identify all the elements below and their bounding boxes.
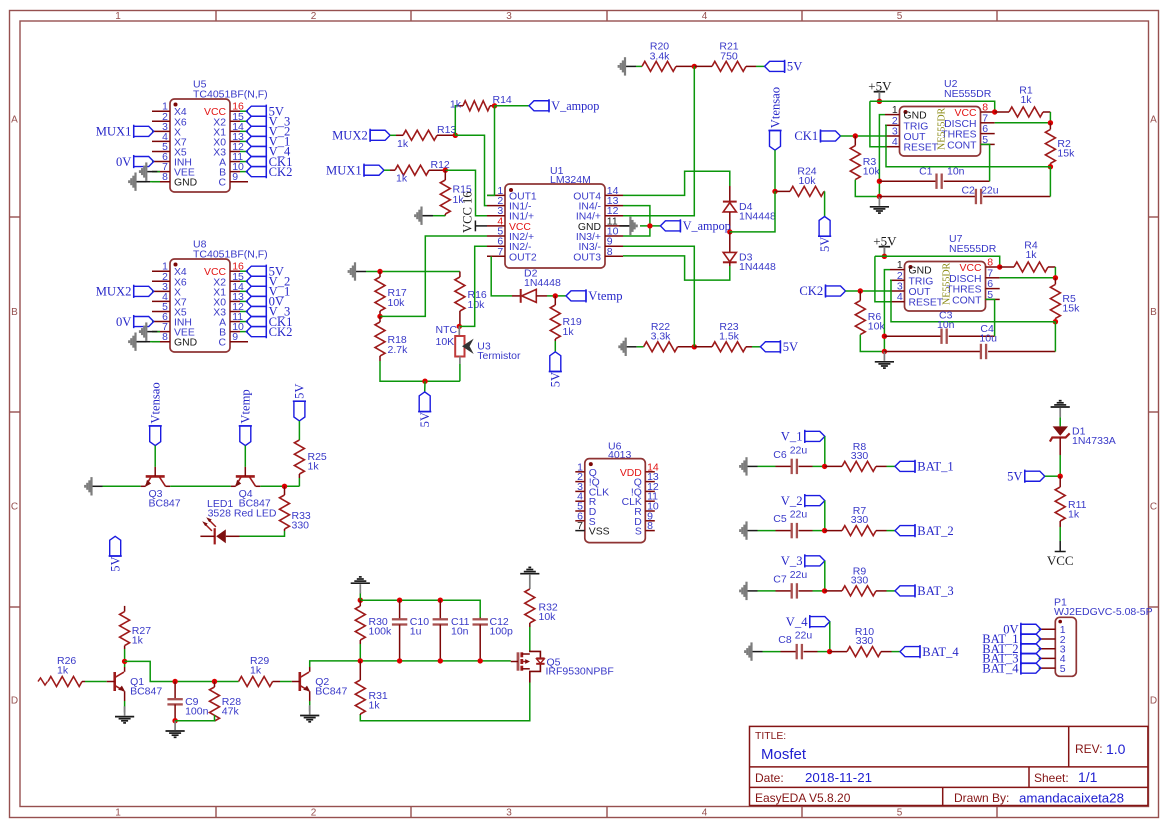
wire D3 to U1 pin8 OUT3 (623, 256, 730, 280)
junction R2 bottom (1048, 164, 1053, 169)
svg-text:VCC: VCC (960, 263, 982, 274)
net flag 5V at R23 (760, 340, 798, 354)
capacitor C7 22u (773, 569, 812, 599)
junction R12-R15 (443, 168, 448, 173)
wire R9 to BAT_3 (887, 590, 896, 592)
svg-text:Date:: Date: (755, 771, 784, 785)
net flag Vtensao column (768, 87, 782, 150)
ground at R17 top (349, 262, 366, 280)
ground symbol at U2 (870, 197, 889, 214)
svg-text:3: 3 (506, 11, 512, 22)
resistor R23 1.5k (694, 321, 752, 352)
junction V_4 (827, 649, 832, 654)
wire R3 to ground rail (855, 180, 879, 197)
resistor R21 750 (694, 41, 756, 72)
IC U2 NE555DR (885, 78, 995, 156)
wire R31 to bottom rail to Q5 source (360, 683, 530, 721)
net flag 5V at U5 pin 16 (246, 104, 284, 118)
diode D3 1N4448 (723, 232, 776, 273)
svg-text:OUT2: OUT2 (509, 252, 537, 263)
wire Vtensao to Q3 base (154, 446, 156, 467)
resistor R27 1k (120, 606, 152, 649)
ground at U5 pin 7 VEE (140, 162, 160, 180)
wire CK2 to U7 pin3 OUT (846, 290, 891, 292)
svg-text:4: 4 (897, 291, 903, 303)
junction mid rail C12 (478, 658, 483, 663)
wire V_3 flag down (824, 561, 826, 591)
wire U2 pin2 TRIG to R2 bottom (885, 125, 1050, 166)
junction R28 top (212, 679, 217, 684)
svg-text:330: 330 (856, 635, 874, 647)
svg-text:1k: 1k (563, 326, 575, 338)
op-amp U1 LM324M (487, 165, 623, 268)
svg-text:BC847: BC847 (315, 686, 347, 698)
wire R13 junction to U1 pin2 (455, 135, 487, 205)
net flag V_2 at U8 pin 15 (246, 274, 290, 288)
net flag V_ampop top (529, 99, 599, 113)
wire R25 to row (298, 478, 300, 486)
wire R29 to Q2 base (280, 681, 292, 683)
wire U7 pin2 TRIG to R5 bottom (890, 280, 1055, 321)
svg-text:S: S (635, 527, 642, 538)
svg-text:Mosfet: Mosfet (761, 746, 807, 763)
svg-text:100n: 100n (185, 706, 209, 718)
ground at C6 (740, 457, 757, 475)
svg-text:1/1: 1/1 (1078, 769, 1098, 785)
svg-text:C: C (218, 178, 226, 189)
svg-text:C: C (1150, 502, 1157, 513)
junction C11 top (438, 598, 443, 603)
mosfet Q5 IRF9530NPBF (511, 651, 614, 683)
zener diode D1 1N4733A (1050, 426, 1116, 456)
svg-text:5: 5 (897, 11, 903, 22)
wire R6 to ground rail (860, 335, 884, 352)
svg-text:GND: GND (909, 266, 932, 277)
diode D4 1N4448 (723, 186, 776, 232)
resistor R7 330 (825, 505, 887, 536)
junction C9 bottom (172, 718, 177, 723)
capacitor C5 22u (773, 509, 812, 539)
wire R20 junction down to U1 pin12 (623, 66, 694, 215)
svg-text:750: 750 (720, 51, 738, 63)
svg-text:15k: 15k (1057, 147, 1075, 159)
ground at C9 (166, 721, 185, 738)
svg-text:Vtemp: Vtemp (588, 289, 622, 303)
svg-text:8: 8 (647, 520, 653, 532)
IC U7 NE555DR (890, 233, 1000, 311)
wire R21 to 5V flag (756, 65, 765, 67)
wire R27 to Q1 collector (124, 649, 126, 667)
wire 5V to R25 (298, 421, 300, 440)
wire R4 down to DISCH (1054, 267, 1056, 278)
svg-text:C7: C7 (773, 573, 787, 585)
power flag VCC below R11 (1047, 527, 1074, 568)
wire V_4 flag down (829, 622, 831, 652)
svg-text:OUT: OUT (904, 132, 927, 143)
wire D1 to 5V junction (1059, 455, 1061, 476)
net flag MUX1 mid (326, 163, 384, 177)
svg-text:OUT: OUT (909, 287, 932, 298)
net flag V_4 (786, 615, 830, 629)
junction V_2 (822, 528, 827, 533)
wire +5V rail to U7 pin8 (875, 256, 1000, 267)
svg-text:D: D (1150, 696, 1157, 707)
svg-text:330: 330 (292, 520, 310, 532)
svg-text:5V: 5V (293, 383, 307, 398)
net flag 0V at U8 pin 13 (246, 295, 284, 309)
wire Q3 collector to Q4 emitter (170, 485, 231, 487)
svg-text:5V: 5V (783, 340, 798, 354)
capacitor C10 1u (392, 600, 429, 661)
power flag +5V at U2 (868, 78, 892, 101)
capacitor C2 22u at U2 (879, 185, 1050, 205)
resistor R32 10k (525, 589, 558, 627)
svg-text:CK2: CK2 (799, 284, 823, 298)
ground at U5 pin 8 GND (129, 172, 160, 190)
wire R23 to 5V flag (752, 346, 760, 348)
wire U2 pin1 GND down (879, 115, 885, 197)
net flag 0V at U5 pin 6 (116, 155, 154, 169)
transistor Q3 BC847 (141, 467, 181, 509)
svg-text:BAT_1: BAT_1 (917, 460, 953, 474)
svg-text:BAT_4: BAT_4 (982, 661, 1019, 675)
resistor R6 10k at U7 (855, 291, 885, 335)
resistor R29 1k (239, 655, 280, 687)
net flag 5V below R19 (549, 352, 563, 388)
inverted ground above R32 (520, 567, 539, 589)
svg-text:CK2: CK2 (269, 325, 293, 339)
resistor R18 2.7k (375, 316, 408, 361)
svg-text:2: 2 (311, 808, 317, 819)
svg-text:C6: C6 (773, 449, 787, 461)
transistor Q4 BC847 (231, 467, 271, 509)
capacitor C11 10n (433, 600, 470, 661)
net flag 0V at U8 pin 6 (116, 315, 154, 329)
ground at C8 (745, 642, 762, 660)
wire V_2 flag down (824, 501, 826, 531)
svg-text:1k: 1k (1068, 509, 1080, 521)
wire to 5V flag below rail (424, 381, 426, 392)
IC U8 TC4051BF (152, 239, 268, 353)
wire C5 to junction (813, 530, 825, 532)
svg-text:VCC 16: VCC 16 (461, 191, 475, 233)
svg-text:VCC: VCC (1047, 553, 1074, 568)
ground at C5 (740, 521, 757, 539)
ground above D1 (1051, 401, 1070, 418)
wire R10 to BAT_4 (892, 651, 901, 653)
svg-text:DISCH: DISCH (944, 119, 976, 130)
svg-text:5: 5 (897, 808, 903, 819)
resistor R20 3.4k (642, 41, 694, 72)
svg-text:5V: 5V (549, 372, 563, 387)
svg-text:A: A (11, 115, 18, 126)
svg-text:TRIG: TRIG (909, 276, 934, 287)
svg-text:10k: 10k (868, 321, 886, 333)
net flag Vtemp above Q4 (239, 389, 253, 445)
svg-text:15k: 15k (1062, 302, 1080, 314)
ground at C7 (740, 582, 757, 600)
svg-text:1.0: 1.0 (1106, 741, 1126, 757)
junction R13-R14 (453, 133, 458, 138)
resistor R14 1k (450, 94, 512, 111)
svg-text:VSS: VSS (589, 527, 610, 538)
junction U7 pin8 (997, 264, 1002, 269)
net flag 5V below R24 (818, 217, 832, 253)
svg-text:Vtensao: Vtensao (149, 382, 163, 423)
junction R17 top (377, 269, 382, 274)
svg-text:8: 8 (607, 246, 613, 258)
svg-text:C2: C2 (961, 185, 975, 197)
junction bottom rail 5V tap (422, 379, 427, 384)
junction R20-R21 (692, 64, 697, 69)
power flag +5V at U7 (873, 233, 897, 256)
svg-text:10k: 10k (468, 299, 486, 311)
svg-text:1N4448: 1N4448 (739, 211, 776, 223)
junction R5 bottom (1053, 319, 1058, 324)
wire +5V rail to U2 pin8 (870, 101, 995, 112)
svg-text:Sheet:: Sheet: (1034, 771, 1069, 785)
svg-text:1k: 1k (57, 665, 69, 677)
svg-text:1N4733A: 1N4733A (1072, 435, 1116, 447)
resistor R11 1k (1055, 476, 1086, 527)
resistor R12 1k (390, 159, 450, 185)
svg-text:BAT_4: BAT_4 (922, 645, 959, 659)
wire R19 to 5V flag (554, 341, 556, 352)
wire ground to C6 (758, 465, 776, 467)
net flag MUX2 at U8 pin 3 (96, 285, 154, 299)
net flag BAT_3 at P1 pin 4 (982, 652, 1041, 666)
wire Vtensao junction to diode junction (730, 191, 775, 232)
junction V_3 (822, 588, 827, 593)
wire U1 pin14 OUT4 to diode D4 (623, 171, 730, 195)
svg-text:9: 9 (232, 171, 238, 183)
svg-text:WJ2EDGVC-5.08-5P: WJ2EDGVC-5.08-5P (1054, 606, 1153, 618)
resistor R30 100k (355, 600, 392, 644)
net flag MUX2 (332, 129, 390, 143)
transistor Q2 BC847 (292, 667, 348, 701)
svg-text:10k: 10k (863, 166, 881, 178)
svg-text:NE555DR: NE555DR (944, 88, 992, 100)
svg-text:3: 3 (506, 808, 512, 819)
svg-text:1k: 1k (397, 138, 409, 150)
svg-text:0V: 0V (116, 315, 131, 329)
svg-text:10k: 10k (539, 611, 557, 623)
junction C10 top (397, 598, 402, 603)
svg-text:3528 Red LED: 3528 Red LED (208, 508, 277, 520)
svg-text:VCC: VCC (955, 108, 977, 119)
junction +5V rail U2 (877, 99, 882, 104)
capacitor C9 100n (167, 682, 208, 721)
wire R16 junction to U1 pin6 (459, 246, 487, 326)
svg-text:DISCH: DISCH (949, 274, 981, 285)
svg-text:5V: 5V (787, 60, 802, 74)
svg-text:MUX2: MUX2 (96, 285, 132, 299)
wire top rail R17-R16 (366, 271, 460, 273)
capacitor C6 22u (773, 444, 812, 474)
net flag CK2 (799, 284, 845, 298)
svg-text:1k: 1k (369, 700, 381, 712)
connector P1 WJ2EDGVC-5.08-5P (1039, 597, 1153, 677)
capacitor C8 22u (778, 630, 817, 660)
svg-text:2.7k: 2.7k (388, 344, 409, 356)
capacitor C12 100p (473, 616, 514, 661)
junction Vtensao-R24 (772, 189, 777, 194)
wire thermistor to rail (459, 364, 461, 381)
resistor R13 1k (396, 124, 456, 150)
wire U7 pin7 DISCH (1000, 277, 1056, 279)
junction R22-R23 (692, 344, 697, 349)
junction CK1-R3 (853, 133, 858, 138)
junction DISCH U2 (1048, 120, 1053, 125)
ground at U8 pin 7 VEE (140, 322, 160, 340)
svg-text:5: 5 (1060, 663, 1066, 675)
svg-text:BAT_3: BAT_3 (917, 584, 953, 598)
svg-text:GND: GND (174, 178, 197, 189)
svg-text:1k: 1k (250, 665, 262, 677)
ground at R22 (619, 338, 636, 356)
wire R24 to 5V flag (824, 191, 826, 216)
wire MUX1 to R12 (384, 169, 390, 171)
svg-text:Termistor: Termistor (477, 350, 521, 362)
net flag 5V floating (109, 536, 123, 572)
wire U1 pin9 to R22 junction (623, 246, 694, 347)
svg-text:3.4k: 3.4k (650, 51, 671, 63)
svg-text:22u: 22u (790, 509, 808, 521)
svg-text:V_1: V_1 (781, 430, 803, 444)
net flag V_ampop at U1 pin11 (660, 219, 730, 233)
wire U1 pin7 OUT2 to D2 (491, 256, 512, 296)
wire R12 junction to U1 pin3 (445, 170, 487, 216)
inverted ground above R30 (351, 577, 370, 600)
svg-text:BC847: BC847 (130, 686, 162, 698)
net flag BAT_4 at P1 pin 5 (982, 661, 1041, 675)
svg-text:Vtemp: Vtemp (239, 389, 253, 423)
svg-text:NE555DR: NE555DR (942, 262, 953, 305)
svg-text:10n: 10n (451, 626, 469, 638)
svg-text:5V: 5V (818, 237, 832, 252)
net flag V_2 at U5 pin 14 (246, 125, 290, 139)
wire U2 pin7 DISCH (995, 122, 1051, 124)
net flag BAT_1 (895, 460, 954, 474)
wire ground to R20 (636, 65, 642, 67)
net flag CK2 at U5 pin 10 (246, 165, 292, 179)
svg-text:1k: 1k (450, 99, 462, 111)
svg-text:CK1: CK1 (794, 129, 818, 143)
resistor R9 330 (825, 565, 887, 596)
wire D2 to Vtemp (547, 295, 566, 297)
net flag 5V above R25 (293, 383, 307, 420)
svg-text:1.5k: 1.5k (719, 331, 740, 343)
svg-text:TRIG: TRIG (904, 121, 929, 132)
wire R14 left to junction (455, 106, 458, 136)
wire R2 bottom to C2 (1049, 167, 1051, 197)
resistor R33 330 (280, 486, 311, 531)
svg-text:10n: 10n (947, 166, 965, 178)
wire R26 to Q1 base (85, 681, 107, 683)
resistor R1 1k at U2 (995, 84, 1051, 117)
svg-text:22u: 22u (790, 444, 808, 456)
power flag VCC 16 at U1 pin4 (461, 191, 488, 233)
svg-text:1: 1 (115, 11, 121, 22)
svg-text:1u: 1u (410, 626, 422, 638)
svg-text:47k: 47k (222, 706, 240, 718)
wire ground to Q3 (103, 485, 141, 487)
svg-text:V_2: V_2 (781, 494, 803, 508)
net flag BAT_3 (895, 584, 954, 598)
svg-text:1k: 1k (308, 461, 320, 473)
net flag CK1 at U8 pin 11 (246, 315, 292, 329)
net flag V_3 at U8 pin 12 (246, 305, 290, 319)
wire R28 to C9 ground (175, 715, 214, 721)
net flag V_3 (781, 554, 825, 568)
junction U1 pin11 net (647, 223, 652, 228)
svg-text:1N4448: 1N4448 (739, 261, 776, 273)
ground at Q3 emitter (85, 477, 102, 495)
svg-text:RESET: RESET (909, 298, 944, 309)
svg-text:10k: 10k (388, 297, 406, 309)
svg-text:Vtensao: Vtensao (768, 87, 782, 128)
net flag BAT_4 (900, 645, 959, 659)
IC U5 TC4051BF (152, 79, 268, 193)
wire R17 junction to U1 pin5 (380, 236, 487, 316)
svg-text:C: C (218, 338, 226, 349)
svg-text:3.3k: 3.3k (651, 331, 672, 343)
junction U2 pin8 (992, 109, 997, 114)
ground at U1 pin11 GND (619, 217, 636, 235)
junction ground rail U2 (877, 194, 882, 199)
svg-text:330: 330 (851, 514, 869, 526)
svg-text:RESET: RESET (904, 143, 939, 154)
wire R8 to BAT_1 (887, 465, 896, 467)
capacitor C1 10n at U2 (879, 166, 989, 189)
junction V_1 (822, 464, 827, 469)
junction +5V rail U7 (882, 254, 887, 259)
svg-text:10k: 10k (799, 175, 817, 187)
junction ground rail U7 (882, 349, 887, 354)
resistor R16 10k (455, 272, 487, 327)
net flag 5V at R11 (1007, 469, 1045, 483)
junction DISCH U7 (1053, 275, 1058, 280)
wire ground to C7 (758, 590, 776, 592)
net flag CK2 at U8 pin 10 (246, 325, 292, 339)
svg-text:5V: 5V (109, 556, 123, 571)
svg-text:7: 7 (577, 520, 583, 532)
net flag 0V at P1 pin 1 (1003, 623, 1041, 637)
resistor R4 1k at U7 (1000, 239, 1056, 272)
svg-text:GND: GND (904, 111, 927, 122)
resistor R15 1k (440, 170, 472, 216)
junction R30 top (358, 598, 363, 603)
net flag V_3 at U5 pin 15 (246, 114, 290, 128)
svg-text:CK2: CK2 (269, 165, 293, 179)
resistor R3 10k at U2 (850, 136, 880, 180)
net flag 5V at R21 (765, 60, 803, 74)
svg-text:1: 1 (115, 808, 121, 819)
svg-text:10K: 10K (436, 336, 455, 348)
svg-text:V_ampop: V_ampop (683, 219, 731, 233)
wire Q2 collector to mid rail (310, 661, 511, 667)
svg-text:MUX2: MUX2 (332, 129, 368, 143)
net flag CK1 (794, 129, 840, 143)
wire ground to C8 (763, 651, 781, 653)
resistor R5 15k at U7 (1050, 278, 1080, 322)
junction D2-R19 (553, 293, 558, 298)
svg-text:REV:: REV: (1075, 742, 1103, 756)
ground at R15 (415, 207, 433, 225)
svg-text:330: 330 (851, 574, 869, 586)
svg-text:NE555DR: NE555DR (937, 107, 948, 150)
wire Q4 collector to R25 (260, 485, 299, 487)
